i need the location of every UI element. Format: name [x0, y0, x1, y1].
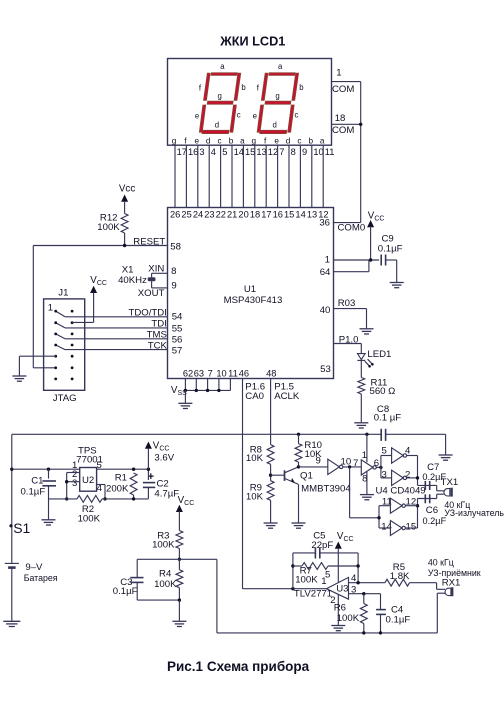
wire pin40 [334, 308, 367, 310]
svg-text:56: 56 [172, 335, 183, 346]
wire to C7 [418, 484, 437, 486]
wire Vcc to J1 pin 4 [72, 321, 94, 323]
svg-text:3: 3 [381, 469, 386, 480]
junction pin3 [65, 480, 68, 483]
svg-text:a: a [278, 62, 283, 71]
svg-text:g: g [218, 91, 222, 100]
wire LCD pin 5 to MCU pin 22 [220, 145, 222, 207]
wire COM1 [332, 81, 361, 83]
svg-text:20: 20 [238, 210, 248, 220]
LCD segment a [269, 73, 295, 76]
svg-text:a: a [240, 137, 245, 146]
J1 pin row 5 [54, 355, 57, 358]
svg-text:0.1µF: 0.1µF [113, 586, 138, 597]
wire emitter ground [298, 484, 300, 522]
wire battery rail [11, 434, 13, 563]
wire Vss bus [185, 389, 230, 391]
wire COM bus vertical [360, 82, 362, 223]
junction pin4 [103, 497, 106, 500]
ground R11 [354, 423, 368, 428]
svg-text:16: 16 [188, 147, 198, 157]
ground battery [3, 621, 20, 626]
wire U3 pin2 ground [337, 594, 339, 625]
svg-text:XOUT: XOUT [138, 288, 165, 299]
svg-text:C6: C6 [426, 505, 438, 516]
junction R6 bottom [362, 631, 365, 634]
svg-text:8: 8 [171, 266, 176, 277]
wire U3 pin3 [349, 593, 381, 595]
wire MCU pin 10 Vss [218, 379, 220, 391]
svg-text:7: 7 [208, 369, 213, 379]
svg-text:ACLK: ACLK [274, 391, 300, 402]
svg-text:3.6V: 3.6V [154, 453, 174, 464]
LCD segment c [230, 105, 236, 132]
svg-text:13: 13 [256, 147, 266, 157]
svg-text:0.2µF: 0.2µF [423, 516, 447, 526]
svg-text:TMS: TMS [147, 330, 167, 341]
svg-text:MSP430F413: MSP430F413 [224, 295, 283, 306]
svg-text:LED1: LED1 [367, 349, 391, 360]
wire LCD pin 17 to MCU pin 26 [174, 145, 176, 207]
wire U2 pins 2 3 [67, 472, 80, 474]
wire LCD pin 14 to MCU pin 21 [231, 145, 233, 207]
junction rail U4 pin1 [365, 433, 368, 436]
wire MCU pin 11 Vss [229, 379, 231, 391]
svg-text:TLV2771: TLV2771 [294, 588, 332, 599]
wire J1 ground [19, 355, 55, 357]
wire collector to U4f [299, 466, 328, 468]
wire TCK to MCU pin 57 [65, 349, 168, 351]
svg-text:40 кГц: 40 кГц [428, 558, 454, 568]
svg-text:1: 1 [321, 576, 326, 587]
svg-text:48: 48 [266, 369, 276, 379]
svg-text:VCC: VCC [368, 210, 385, 222]
svg-text:d: d [273, 120, 277, 129]
svg-text:4: 4 [211, 147, 216, 157]
LCD display LCD1 box [168, 59, 332, 146]
svg-text:8: 8 [291, 147, 296, 157]
J1 pin row 4 [54, 344, 57, 347]
svg-text:25: 25 [181, 210, 191, 220]
svg-text:40KHz: 40KHz [118, 275, 147, 286]
wire input rail [12, 468, 80, 470]
svg-text:3: 3 [199, 147, 204, 157]
svg-text:УЗ-излучатель: УЗ-излучатель [444, 508, 504, 518]
wire TDI to MCU pin 55 [65, 327, 168, 329]
svg-text:R4: R4 [159, 568, 172, 579]
wire Vcc/2 reference rail [216, 559, 218, 633]
wire regulator bottom rail [49, 498, 78, 500]
junction R7 left [291, 564, 294, 567]
ground U3 [331, 626, 345, 631]
svg-text:17: 17 [261, 210, 271, 220]
svg-text:3: 3 [72, 478, 77, 489]
LCD segment b [234, 73, 241, 100]
wire TMS to MCU pin 56 [65, 338, 168, 340]
wire RX1 bottom [437, 592, 445, 594]
svg-text:TX1: TX1 [441, 477, 459, 488]
svg-text:100K: 100K [154, 579, 177, 590]
J1 contact slant row 3 [56, 334, 65, 339]
svg-text:15: 15 [406, 522, 417, 533]
junction input branch [377, 516, 380, 519]
svg-text:c: c [297, 137, 301, 146]
svg-text:14: 14 [234, 147, 244, 157]
svg-text:b: b [241, 83, 246, 92]
wire TX1 bottom to C6 [437, 493, 444, 495]
junction base node [269, 474, 272, 477]
svg-text:f: f [184, 137, 187, 146]
junction pin3 R6 [362, 592, 365, 595]
ground J1 [12, 376, 26, 381]
junction Vss bus [217, 389, 220, 392]
ground C9 [390, 283, 404, 288]
svg-text:e: e [253, 112, 257, 121]
svg-text:R03: R03 [338, 298, 356, 309]
wire U4f out [343, 466, 362, 468]
wire LCD pin 15 to MCU pin 20 [242, 145, 244, 207]
junction pins 4 2 [416, 476, 419, 479]
svg-text:CA0: CA0 [245, 391, 264, 402]
junction Vcc pin1 [369, 258, 372, 261]
wire LCD pin 7 to MCU pin 16 [277, 145, 279, 207]
LCD segment b [292, 73, 299, 100]
svg-text:COM: COM [332, 125, 354, 136]
wire C8 to ground [445, 434, 447, 454]
junction RESET R12 [123, 244, 126, 247]
LCD segment a [211, 73, 237, 76]
svg-text:g: g [252, 137, 257, 146]
switch S1 [9, 524, 12, 527]
svg-text:13: 13 [307, 210, 317, 220]
svg-text:X1: X1 [122, 264, 134, 275]
wire U4b U4c inputs [380, 456, 382, 478]
svg-text:24: 24 [193, 210, 203, 220]
svg-text:10: 10 [313, 147, 323, 157]
wire C9 to ground [386, 259, 397, 261]
wire feedback right [357, 553, 359, 583]
junction pin12 out [416, 504, 419, 507]
junction Vss bus [195, 389, 198, 392]
LCD segment d [260, 130, 287, 133]
svg-text:17: 17 [177, 147, 187, 157]
wire U2 pin4 [97, 484, 105, 486]
LED light arrows [365, 361, 369, 366]
junction collector [297, 465, 300, 468]
wire R12 bottom [124, 233, 126, 246]
wire LCD pin 12 to MCU pin 17 [265, 145, 267, 207]
svg-text:0.1µF: 0.1µF [378, 243, 403, 254]
svg-text:100K: 100K [97, 222, 120, 233]
junction Vss bus [184, 389, 187, 392]
Q1 emitter arrow [291, 478, 295, 483]
svg-text:e: e [195, 137, 200, 146]
svg-text:TCK: TCK [148, 340, 168, 351]
junction feedback output [291, 587, 294, 590]
wire feedback left [292, 553, 294, 589]
ground C8 [439, 455, 453, 460]
svg-text:d: d [206, 137, 211, 146]
LCD segment e [199, 105, 205, 132]
svg-text:7: 7 [279, 147, 284, 157]
wire pin2 out [407, 477, 418, 479]
svg-text:U3: U3 [336, 584, 348, 595]
wire C6 to pins 12 15 [417, 499, 419, 529]
wire U4 pin8 ground [366, 472, 368, 494]
svg-text:b: b [229, 137, 234, 146]
svg-text:36: 36 [319, 218, 330, 229]
svg-text:f: f [264, 137, 267, 146]
LCD segment g [207, 101, 233, 104]
svg-text:VCC: VCC [337, 531, 354, 543]
junction U4a out [379, 466, 382, 469]
junction pin4 R5 [356, 581, 359, 584]
svg-text:200K: 200K [106, 483, 129, 494]
ground C1 [42, 520, 56, 525]
svg-text:d: d [215, 120, 219, 129]
svg-text:VSS: VSS [171, 385, 187, 397]
wire pin12 out [405, 505, 417, 507]
wire pin64 [334, 271, 369, 273]
svg-text:Q1: Q1 [300, 471, 313, 482]
svg-text:1: 1 [325, 254, 330, 265]
svg-text:1: 1 [48, 303, 53, 314]
svg-text:a: a [320, 137, 325, 146]
svg-text:63: 63 [194, 369, 204, 379]
LCD segment g [265, 101, 291, 104]
svg-text:g: g [172, 137, 177, 146]
svg-text:a: a [220, 62, 225, 71]
J1 contact slant row 2 [56, 323, 65, 328]
svg-text:Батарея: Батарея [24, 573, 58, 583]
svg-text:R1: R1 [115, 473, 127, 484]
svg-text:15: 15 [284, 210, 294, 220]
junction U4f out [348, 465, 351, 468]
ground R9 [264, 523, 278, 528]
svg-text:9: 9 [315, 455, 320, 466]
svg-text:22: 22 [216, 210, 226, 220]
wire LCD pin 13 to MCU pin 18 [254, 145, 256, 207]
junction R1 top [132, 468, 135, 471]
svg-text:J1: J1 [58, 288, 68, 299]
svg-text:U4 CD4049: U4 CD4049 [376, 485, 426, 496]
ground Q1 [292, 523, 306, 528]
wire U4 pin1 to rail [366, 434, 368, 462]
wire LCD pin 11 to MCU pin 12 [322, 145, 324, 207]
power Vcc 3.6V [145, 442, 152, 449]
LCD segment c [288, 105, 294, 132]
wire LCD pin 16 to MCU pin 25 [185, 145, 187, 207]
svg-text:100K: 100K [78, 513, 101, 524]
svg-text:0.1µF: 0.1µF [20, 487, 45, 498]
wire R11 to ground [360, 394, 362, 422]
svg-text:55: 55 [172, 324, 183, 335]
svg-text:11: 11 [228, 369, 238, 379]
J1 contact slant row 4 [56, 345, 65, 350]
svg-text:c: c [295, 111, 299, 120]
battery 9V [5, 562, 19, 564]
svg-text:560 Ω: 560 Ω [370, 386, 396, 397]
wire TDO/TDI to MCU pin 54 [65, 316, 168, 318]
ground pin40 [360, 329, 374, 334]
ground U4 [360, 495, 374, 500]
svg-text:U2: U2 [82, 475, 94, 486]
svg-text:g: g [275, 91, 279, 100]
wire R4 ground [178, 600, 180, 621]
wire U3 pin4 [349, 582, 386, 584]
svg-text:100K: 100K [295, 575, 318, 586]
svg-text:VCC: VCC [153, 441, 170, 453]
svg-text:46: 46 [239, 369, 249, 379]
junction R7 right [356, 564, 359, 567]
svg-text:d: d [286, 137, 291, 146]
svg-text:УЗ-приёмник: УЗ-приёмник [428, 568, 481, 578]
svg-text:c: c [237, 111, 241, 120]
junction R4 bottom [178, 598, 181, 601]
wire LCD pin 4 to MCU pin 23 [208, 145, 210, 207]
svg-text:0.1 µF: 0.1 µF [374, 412, 402, 423]
svg-text:VCC: VCC [90, 275, 107, 287]
svg-text:TDI: TDI [151, 319, 166, 330]
wire C1 to ground [48, 486, 50, 520]
svg-text:b: b [309, 137, 314, 146]
wire C3 bottom [137, 599, 179, 601]
svg-text:23: 23 [204, 210, 214, 220]
wire C7 to TX1 [436, 485, 438, 490]
svg-text:c: c [218, 137, 222, 146]
wire ACLK down [270, 379, 272, 445]
wire U3 output pin1 [243, 588, 327, 590]
J1 pin row 7 [54, 378, 57, 381]
svg-text:12: 12 [268, 147, 278, 157]
svg-text:16: 16 [273, 210, 283, 220]
wire XOUT pin 9 [151, 281, 153, 288]
wire battery to ground [11, 568, 13, 621]
IC U1 MSP430F413 [168, 208, 334, 379]
wire R5 to RX1 [436, 583, 438, 590]
wire MCU pin 62 Vss [184, 379, 186, 391]
LCD segment d [202, 130, 229, 133]
wire LED to R11 [360, 360, 362, 377]
svg-text:100K: 100K [337, 613, 360, 624]
wire COM18 [332, 123, 361, 125]
J1 pin row 1 [54, 310, 57, 313]
svg-text:S1: S1 [13, 520, 30, 536]
svg-text:0.1µF: 0.1µF [386, 615, 411, 626]
svg-text:58: 58 [170, 242, 181, 253]
svg-text:62: 62 [183, 369, 193, 379]
wire LCD pin 8 to MCU pin 15 [288, 145, 290, 207]
wire U2 pin5 output [97, 468, 149, 470]
svg-text:15: 15 [245, 147, 255, 157]
wire divider node [137, 558, 217, 560]
J1 pin row 2 [54, 321, 57, 324]
J1 contact slant row 1 [56, 311, 65, 317]
junction Vss bus [206, 389, 209, 392]
svg-text:9: 9 [302, 147, 307, 157]
svg-text:COM0: COM0 [338, 223, 366, 234]
svg-text:e: e [274, 137, 279, 146]
ground R4 [172, 621, 186, 626]
junction rail R10 [297, 433, 300, 436]
svg-text:b: b [299, 83, 304, 92]
svg-text:26: 26 [170, 210, 180, 220]
svg-text:TDO/TDI: TDO/TDI [129, 308, 167, 319]
junction feedback [65, 497, 68, 500]
wire R9 ground [270, 500, 272, 522]
svg-text:18: 18 [250, 210, 260, 220]
junction C2 top [147, 468, 150, 471]
wire XIN pin 8 [152, 272, 168, 274]
svg-text:RX1: RX1 [442, 577, 461, 588]
wire 9V rail [12, 433, 381, 435]
junction divider mid [178, 558, 181, 561]
svg-text:54: 54 [172, 312, 183, 323]
junction R1 bottom [132, 497, 135, 500]
svg-text:VCC: VCC [178, 495, 195, 507]
svg-text:5: 5 [381, 446, 386, 457]
wire MCU pin 63 Vss [195, 379, 197, 391]
wire U4a out [376, 466, 381, 468]
wire U4d U4e inputs [349, 467, 351, 518]
svg-text:4.7µF: 4.7µF [154, 489, 179, 500]
wire CA0 down [242, 379, 244, 589]
svg-text:MMBT3904: MMBT3904 [301, 484, 351, 495]
opamp U3 TLV2771 [326, 577, 348, 599]
svg-text:64: 64 [320, 267, 331, 278]
svg-text:11: 11 [325, 147, 335, 157]
wire pin15 out [405, 527, 417, 529]
svg-text:53: 53 [320, 364, 331, 375]
junction COM [359, 123, 362, 126]
junction C1 [47, 468, 50, 471]
wire P1.0 [334, 343, 362, 345]
svg-text:JTAG: JTAG [53, 393, 77, 404]
wire MCU pin 7 Vss [207, 379, 209, 391]
svg-text:10K: 10K [246, 491, 264, 502]
svg-text:e: e [195, 112, 199, 121]
svg-text:C1: C1 [31, 476, 43, 487]
wire pin4 out [407, 455, 418, 457]
svg-text:18: 18 [335, 113, 346, 124]
svg-text:100K: 100K [152, 540, 175, 551]
LCD segment f [261, 73, 268, 100]
svg-text:1: 1 [336, 68, 341, 79]
J1 pin row 6 [54, 366, 57, 369]
junction C4 bottom [379, 631, 382, 634]
svg-text:COM: COM [332, 84, 354, 95]
svg-text:7: 7 [353, 458, 358, 469]
wire LCD pin 9 to MCU pin 14 [299, 145, 301, 207]
ground Vss [178, 403, 192, 408]
svg-text:9: 9 [171, 281, 176, 292]
svg-text:9–V: 9–V [25, 562, 43, 573]
svg-text:57: 57 [172, 346, 183, 357]
svg-text:Рис.1 Схема прибора: Рис.1 Схема прибора [167, 659, 310, 674]
junction regulator input [10, 468, 13, 471]
svg-text:Vcc: Vcc [119, 184, 135, 195]
svg-text:R6: R6 [334, 603, 346, 614]
wire COM to MCU pin36 [334, 222, 361, 224]
svg-text:f: f [199, 84, 202, 93]
J1 pin row 3 [54, 333, 57, 336]
svg-text:U1: U1 [244, 284, 256, 295]
LCD segment f [204, 73, 211, 100]
wire RESET [33, 245, 167, 247]
resistor R2 100K [77, 496, 102, 503]
wire pin1 to C9 [334, 259, 380, 261]
svg-text:ЖКИ LCD1: ЖКИ LCD1 [219, 35, 285, 49]
